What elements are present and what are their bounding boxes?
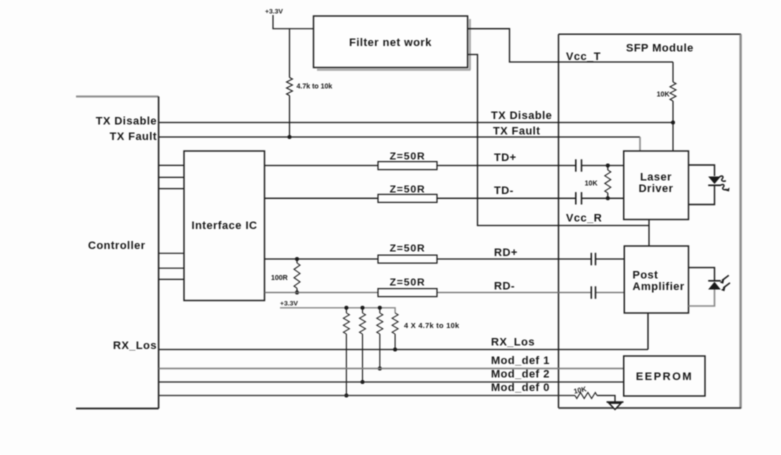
wire RD+ bbox=[265, 258, 625, 260]
svg-text:100R: 100R bbox=[271, 275, 288, 282]
capacitor TD- bbox=[576, 192, 582, 204]
wire RX_Los bbox=[159, 349, 648, 351]
laser diode LED bbox=[708, 177, 721, 186]
controller outline bbox=[76, 97, 159, 409]
wire TX Fault drop to laser driver bbox=[639, 137, 641, 151]
impedance Z=50R (TD-) bbox=[378, 194, 437, 202]
svg-text:+3.3V: +3.3V bbox=[265, 9, 283, 16]
junction TX Disable / 10K bbox=[671, 121, 675, 125]
junction RD- / 100R bbox=[295, 291, 299, 295]
wire Vcc_R to laser driver bbox=[648, 220, 650, 226]
resistor 100R termination (RD) bbox=[294, 259, 300, 293]
wire filter to Vcc_R bbox=[468, 55, 649, 226]
svg-text:Z=50R: Z=50R bbox=[390, 184, 426, 196]
resistor 10K termination (TD) bbox=[605, 166, 611, 199]
wire post amp to photodiode bbox=[689, 268, 715, 281]
wire RD- bbox=[265, 292, 625, 294]
svg-text:TD-: TD- bbox=[494, 185, 514, 197]
svg-text:Controller: Controller bbox=[88, 240, 146, 252]
svg-text:Z=50R: Z=50R bbox=[390, 277, 426, 289]
wire post amp to RX_Los bbox=[647, 313, 649, 350]
junction R-d / RX_Los bbox=[393, 348, 397, 352]
emission arrows bbox=[720, 176, 730, 191]
wire resistor to ground bbox=[597, 396, 615, 403]
svg-text:SFP Module: SFP Module bbox=[626, 43, 694, 55]
junction TD- / 10K bbox=[606, 196, 610, 200]
junction TD+ / 10K bbox=[606, 164, 610, 168]
impedance Z=50R (RD+) bbox=[378, 255, 437, 263]
filter network box bbox=[314, 16, 471, 70]
svg-text:Mod_def 0: Mod_def 0 bbox=[491, 382, 550, 394]
svg-text:Amplifier: Amplifier bbox=[633, 281, 685, 293]
wire Mod_def 0 bbox=[159, 395, 575, 397]
svg-text:Laser: Laser bbox=[640, 172, 672, 184]
capacitor RD+ bbox=[591, 253, 595, 265]
resistor bank R-a (to Mod_def 0) bbox=[343, 308, 349, 396]
wire Vcc_R to post amplifier bbox=[648, 226, 650, 247]
wire Mod_def 2 bbox=[159, 381, 624, 383]
svg-text:Post: Post bbox=[633, 270, 659, 282]
junction RD+ / 100R bbox=[295, 257, 299, 261]
svg-text:RD-: RD- bbox=[494, 281, 515, 293]
wire filter to Vcc_T bbox=[468, 29, 673, 62]
svg-text:TX Fault: TX Fault bbox=[110, 131, 157, 143]
svg-text:TX Fault: TX Fault bbox=[493, 126, 540, 138]
svg-text:Vcc_T: Vcc_T bbox=[566, 51, 601, 63]
svg-text:Z=50R: Z=50R bbox=[390, 151, 426, 163]
EEPROM box U3 bbox=[624, 356, 705, 396]
svg-text:+3.3V: +3.3V bbox=[280, 301, 298, 308]
impedance Z=50R (TD+) bbox=[378, 162, 437, 170]
wire TD+ bbox=[265, 165, 624, 167]
resistor 10K (Mod_def 0 to ground) bbox=[575, 393, 597, 399]
resistor 10K pull-up (TX Disable) bbox=[670, 62, 676, 151]
svg-text:RD+: RD+ bbox=[494, 247, 518, 259]
svg-text:TD+: TD+ bbox=[494, 152, 517, 164]
wire photodiode return bbox=[689, 290, 715, 307]
wire TX Fault bbox=[159, 136, 640, 138]
svg-text:Vcc_R: Vcc_R bbox=[566, 213, 602, 225]
wire laser diode return bbox=[689, 185, 715, 204]
junction R-c / Mod_def 1 bbox=[378, 367, 382, 371]
resistor R 4.7k-10k pull-up bbox=[287, 29, 293, 137]
svg-text:EEPROM: EEPROM bbox=[636, 371, 693, 383]
junction R-b / Mod_def 2 bbox=[361, 380, 365, 384]
svg-text:Z=50R: Z=50R bbox=[390, 243, 426, 255]
capacitor RD- bbox=[591, 286, 595, 299]
bus stub 1 bbox=[159, 164, 184, 166]
interface IC box bbox=[184, 151, 265, 301]
post amplifier box U2 bbox=[624, 246, 688, 313]
laser driver box U1 bbox=[624, 151, 689, 220]
svg-text:4 X 4.7k to 10k: 4 X 4.7k to 10k bbox=[404, 321, 460, 330]
wire laser driver to laser diode bbox=[689, 165, 715, 176]
svg-text:10K: 10K bbox=[657, 92, 670, 99]
bus stub 2 bbox=[159, 176, 184, 178]
svg-text:TX Disable: TX Disable bbox=[96, 116, 157, 128]
wire +3.3V stub bbox=[272, 15, 274, 29]
resistor bank R-c (to Mod_def 1) bbox=[377, 308, 383, 369]
junction TX Fault / pull-up bbox=[288, 135, 292, 139]
bus stub 6 bbox=[159, 278, 184, 280]
svg-text:Mod_def 1: Mod_def 1 bbox=[491, 355, 550, 367]
svg-text:RX_Los: RX_Los bbox=[113, 340, 157, 352]
photodiode D2 bbox=[708, 281, 721, 290]
rail junction dots bbox=[344, 306, 381, 310]
resistor bank R-b (to Mod_def 2) bbox=[360, 308, 366, 382]
wire +3.3V to filter network bbox=[272, 28, 314, 30]
bus stub 5 bbox=[159, 267, 184, 269]
svg-text:Interface IC: Interface IC bbox=[192, 220, 258, 232]
wire +3.3V rail bbox=[280, 308, 395, 313]
svg-text:RX_Los: RX_Los bbox=[491, 337, 535, 349]
wire Mod_def 1 bbox=[159, 368, 624, 370]
impedance Z=50R (RD-) bbox=[378, 289, 437, 297]
svg-text:Driver: Driver bbox=[639, 183, 674, 195]
svg-text:4.7k to 10k: 4.7k to 10k bbox=[297, 84, 333, 91]
label Post Amplifier bbox=[633, 270, 685, 294]
junction R-a / Mod_def 0 bbox=[344, 394, 348, 398]
bus stub 3 bbox=[159, 188, 184, 190]
svg-text:TX Disable: TX Disable bbox=[491, 110, 552, 122]
svg-text:Mod_def 2: Mod_def 2 bbox=[491, 369, 550, 381]
label Laser Driver bbox=[639, 172, 674, 196]
wire TD- bbox=[265, 197, 624, 199]
svg-text:Filter net work: Filter net work bbox=[349, 37, 432, 49]
incident light arrows bbox=[720, 275, 730, 291]
ground bbox=[607, 402, 624, 410]
resistor bank R-d (to RX_Los) bbox=[392, 313, 398, 350]
capacitor TD+ bbox=[576, 159, 582, 171]
bus stub 4 bbox=[159, 252, 184, 254]
wire TX Disable bbox=[159, 122, 673, 124]
svg-text:10K: 10K bbox=[585, 181, 598, 188]
SFP module box bbox=[559, 34, 742, 408]
